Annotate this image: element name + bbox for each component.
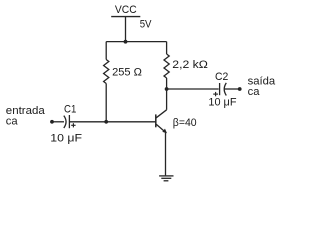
collector node junction dot: [165, 87, 169, 91]
node B junction dot: [104, 120, 108, 124]
power symbol VCC bar: [111, 16, 140, 18]
wire C1 to transistor base: [69, 121, 155, 123]
output terminal dot: [238, 87, 242, 91]
ground symbol: [159, 175, 173, 177]
capacitor C2 positive plate: [219, 83, 221, 95]
svg-text:ca: ca: [6, 115, 19, 127]
wire node A to resistor R1: [105, 42, 107, 60]
svg-text:C1: C1: [64, 104, 76, 116]
svg-text:VCC: VCC: [115, 4, 137, 16]
capacitor C1 positive plate: [68, 115, 70, 128]
C1 polarity plus sign: [71, 124, 75, 126]
svg-text:β=40: β=40: [173, 117, 197, 129]
svg-text:5V: 5V: [140, 19, 152, 31]
svg-text:C2: C2: [215, 71, 228, 83]
wire top rail: [106, 41, 166, 43]
wire R2 to collector node: [166, 78, 168, 110]
transistor Q1 collector lead: [156, 110, 166, 118]
svg-text:2,2 kΩ: 2,2 kΩ: [172, 59, 208, 71]
wire node A to resistor R2: [166, 42, 168, 54]
svg-text:10 μF: 10 μF: [208, 97, 236, 109]
resistor R2 2,2 kohm: [164, 54, 169, 78]
capacitor C2 curved plate: [224, 83, 226, 96]
node A junction dot: [124, 40, 128, 44]
wire input terminal to capacitor C1: [52, 121, 64, 123]
transistor Q1 emitter arrowhead: [162, 129, 167, 134]
transistor Q1 emitter lead: [156, 124, 166, 132]
svg-text:10 μF: 10 μF: [50, 132, 82, 144]
C2 polarity plus sign: [213, 93, 218, 95]
input terminal dot: [50, 120, 54, 124]
wire R1 to base node B: [105, 84, 107, 122]
wire collector node to capacitor C2: [167, 88, 219, 90]
resistor R1 255 ohm: [104, 60, 109, 84]
transistor Q1 base bar: [155, 114, 157, 127]
wire VCC bar to node A: [125, 17, 127, 42]
svg-text:ca: ca: [248, 86, 261, 98]
wire C2 to output terminal: [225, 88, 240, 90]
wire emitter to ground: [165, 133, 167, 176]
svg-text:255 Ω: 255 Ω: [112, 66, 142, 78]
capacitor C1 curved plate: [64, 116, 66, 128]
